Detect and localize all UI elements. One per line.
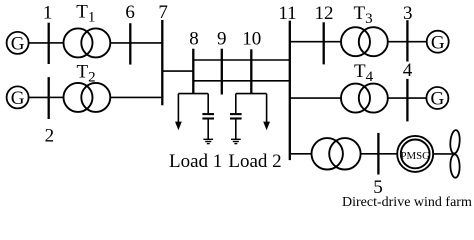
generator G2 (7, 86, 29, 109)
svg-text:Load 1: Load 1 (169, 151, 222, 172)
bus 4 (406, 79, 408, 122)
wire bus 4 to G4 (407, 97, 426, 99)
bus 11 (289, 21, 291, 161)
svg-text:7: 7 (158, 2, 168, 23)
bus 3 (406, 20, 408, 61)
wire bus 7 to bus 8 (162, 70, 193, 72)
svg-text:4: 4 (403, 60, 413, 81)
load 1 arrow (175, 122, 182, 131)
svg-text:10: 10 (242, 29, 261, 50)
ground of C1 (203, 139, 213, 143)
generator G1 (7, 32, 29, 55)
bus 8 (192, 49, 194, 94)
svg-text:6: 6 (125, 2, 135, 23)
bus 7 (161, 20, 163, 105)
wire G1 to bus 1 (29, 42, 49, 44)
wire bus 11 to T3 (290, 41, 341, 43)
generator G4 (426, 87, 448, 110)
wire load 1 branch (178, 94, 208, 122)
svg-text:G: G (11, 88, 25, 109)
svg-text:3: 3 (403, 3, 413, 24)
generator G3 (427, 31, 449, 54)
wire bus 3 to G3 (407, 41, 426, 43)
wire T5 to bus 5 (361, 153, 379, 155)
svg-text:12: 12 (315, 3, 334, 24)
transformer T2 (64, 83, 111, 112)
svg-text:2: 2 (45, 126, 55, 147)
wire bus 11 to T5 (290, 153, 312, 155)
svg-text:1: 1 (43, 2, 53, 23)
wire lower line bus 8 to bus 11 (193, 80, 289, 82)
bus 9 (221, 49, 223, 95)
svg-text:G: G (431, 32, 445, 53)
wind turbine blades (449, 130, 460, 178)
transformer T4 (341, 84, 388, 113)
wire PMSG to wind turbine (433, 153, 453, 155)
svg-text:Load 2: Load 2 (228, 151, 281, 172)
bus 1 (48, 23, 50, 64)
svg-text:11: 11 (278, 3, 296, 24)
wire bus 11 to T4 (290, 97, 341, 99)
wire bus 2 to T2 (49, 96, 64, 98)
capacitor C1 (202, 114, 214, 139)
svg-text:8: 8 (189, 29, 199, 50)
bus 12 (323, 22, 325, 64)
transformer T1 (64, 28, 111, 57)
wire load 2 branch (236, 94, 267, 122)
wire T4 to bus 4 (388, 97, 408, 99)
transformer T5 wind farm (312, 138, 361, 169)
wire bus 6 to bus 7 (130, 42, 162, 44)
wire bus 1 to T1 (49, 42, 64, 44)
bus 10 (250, 49, 252, 94)
capacitor C2 (230, 114, 242, 139)
svg-text:PMSG: PMSG (400, 150, 430, 162)
svg-text:G: G (431, 89, 445, 110)
bus 6 (129, 23, 131, 64)
wire T1 to bus 6 (110, 42, 130, 44)
wire bus 5 to PMSG (378, 153, 397, 155)
ground of C2 (231, 139, 241, 143)
bus 2 (48, 77, 50, 119)
generator PMSG (397, 136, 433, 172)
svg-text:9: 9 (217, 29, 227, 50)
bus 5 (377, 133, 379, 175)
wire T2 to bus 7 (110, 96, 162, 98)
load 2 arrow (263, 122, 270, 131)
svg-text:G: G (11, 34, 25, 55)
wire T3 to bus 3 (388, 41, 408, 43)
svg-text:Direct-drive wind farm: Direct-drive wind farm (342, 195, 472, 210)
wire G2 to bus 2 (29, 96, 49, 98)
wire upper line bus 8 to bus 11 (193, 59, 289, 61)
transformer T3 (341, 27, 388, 56)
